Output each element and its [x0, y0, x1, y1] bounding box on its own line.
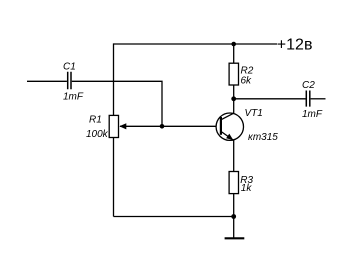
- transistor VT1 emitter stroke: [221, 131, 234, 140]
- transistor VT1 collector stroke: [221, 113, 234, 120]
- junction dot: ground node: [231, 214, 236, 219]
- junction dot: base node: [160, 124, 165, 129]
- svg-text:6k: 6k: [241, 76, 253, 87]
- wire: left rail from +12V down to R1 top: [113, 43, 115, 115]
- junction dot: +12V rail / R2 top: [231, 42, 236, 47]
- wire: bottom wire from left rail to ground node: [114, 216, 234, 218]
- svg-text:R1: R1: [89, 115, 102, 126]
- wire: ground node down: [233, 217, 235, 239]
- resistor R3 body: [229, 172, 238, 194]
- junction dot: collector node: [231, 96, 236, 101]
- svg-text:кт315: кт315: [248, 132, 278, 143]
- ground bar: [225, 237, 245, 239]
- capacitor C1 plates: [68, 72, 71, 89]
- transistor VT1 emitter arrowhead: [226, 134, 233, 141]
- wire: +12V top rail: [114, 43, 278, 45]
- wire: rail down to R2: [233, 44, 235, 63]
- wire: R1 wiper line to transistor base: [120, 125, 221, 127]
- svg-text:1k: 1k: [241, 183, 253, 194]
- transistor VT1 circle: [216, 113, 243, 140]
- wire: input left of C1: [27, 80, 67, 82]
- svg-text:1mF: 1mF: [63, 92, 84, 103]
- svg-text:1mF: 1mF: [302, 109, 323, 120]
- svg-text:C2: C2: [302, 80, 315, 91]
- wire: output right of C2: [311, 98, 326, 100]
- wire: C1 right to corner, down to base line: [72, 81, 162, 126]
- potentiometer R1 wiper arrowhead: [119, 123, 126, 129]
- wire: R2 bottom to collector node: [233, 85, 235, 113]
- transistor VT1 base bar: [220, 117, 222, 135]
- wire: emitter down to R3: [233, 140, 235, 172]
- svg-text:C1: C1: [63, 62, 76, 73]
- svg-text:100k: 100k: [86, 129, 109, 140]
- wire: R3 bottom to ground node: [233, 194, 235, 217]
- wire: left rail from R1 bottom to bottom wire: [113, 138, 115, 217]
- potentiometer R1 body: [109, 115, 118, 137]
- capacitor C2 plates: [306, 91, 310, 107]
- wire: collector node to C2: [234, 98, 306, 100]
- resistor R2 body: [229, 63, 238, 85]
- svg-text:VT1: VT1: [245, 108, 263, 119]
- svg-text:+12в: +12в: [277, 37, 313, 54]
